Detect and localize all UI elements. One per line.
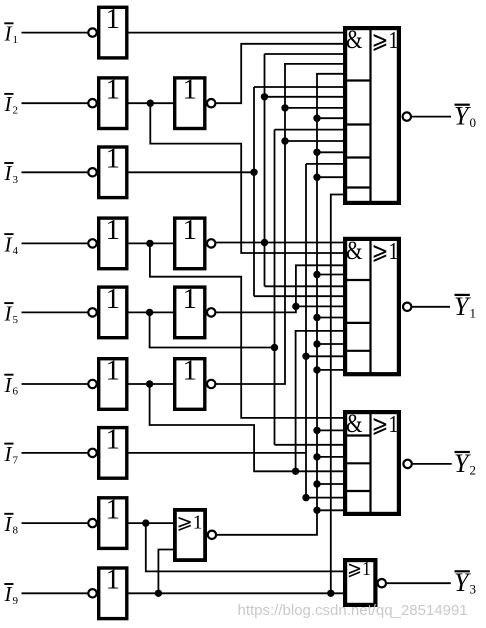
- svg-text:1: 1: [183, 214, 198, 246]
- svg-text:1: 1: [106, 143, 121, 175]
- svg-text:3: 3: [470, 582, 477, 597]
- svg-text:I: I: [4, 92, 13, 116]
- svg-text:1: 1: [106, 494, 121, 526]
- svg-text:I: I: [4, 161, 13, 185]
- svg-text:1: 1: [183, 74, 198, 106]
- svg-text:1: 1: [106, 564, 121, 596]
- svg-text:https://blog.csdn.net/qq_28514: https://blog.csdn.net/qq_28514991: [238, 602, 468, 619]
- svg-text:⩾1: ⩾1: [372, 28, 399, 54]
- svg-text:5: 5: [13, 314, 19, 326]
- svg-text:8: 8: [13, 525, 19, 537]
- svg-text:0: 0: [470, 115, 477, 130]
- svg-text:1: 1: [106, 354, 121, 386]
- svg-text:2: 2: [470, 462, 477, 477]
- svg-text:1: 1: [106, 3, 121, 35]
- svg-text:1: 1: [106, 214, 121, 246]
- svg-text:2: 2: [13, 105, 19, 117]
- svg-text:I: I: [4, 512, 13, 536]
- svg-text:I: I: [4, 373, 13, 397]
- svg-text:1: 1: [183, 283, 198, 315]
- svg-text:1: 1: [470, 305, 477, 320]
- svg-text:⩾1: ⩾1: [372, 239, 399, 265]
- svg-text:1: 1: [106, 283, 121, 315]
- svg-text:I: I: [4, 232, 13, 256]
- svg-text:1: 1: [106, 423, 121, 455]
- svg-text:9: 9: [13, 595, 19, 607]
- svg-text:3: 3: [13, 174, 19, 186]
- svg-text:1: 1: [106, 74, 121, 106]
- svg-text:&: &: [346, 25, 363, 54]
- svg-text:Y: Y: [454, 102, 471, 131]
- svg-text:Y: Y: [454, 568, 471, 597]
- svg-text:I: I: [4, 582, 13, 606]
- svg-text:Y: Y: [454, 449, 471, 478]
- svg-text:&: &: [346, 236, 363, 265]
- svg-text:1: 1: [13, 34, 19, 46]
- svg-text:⩾1: ⩾1: [177, 512, 203, 534]
- svg-text:⩾1: ⩾1: [347, 558, 371, 580]
- svg-text:4: 4: [13, 245, 19, 257]
- svg-text:I: I: [4, 442, 13, 466]
- svg-text:6: 6: [13, 386, 19, 398]
- svg-text:1: 1: [183, 354, 198, 386]
- svg-text:Y: Y: [454, 292, 471, 321]
- svg-text:&: &: [346, 409, 363, 438]
- svg-text:I: I: [4, 301, 13, 325]
- svg-text:I: I: [4, 22, 13, 46]
- svg-text:⩾1: ⩾1: [372, 412, 399, 438]
- svg-text:7: 7: [13, 454, 19, 466]
